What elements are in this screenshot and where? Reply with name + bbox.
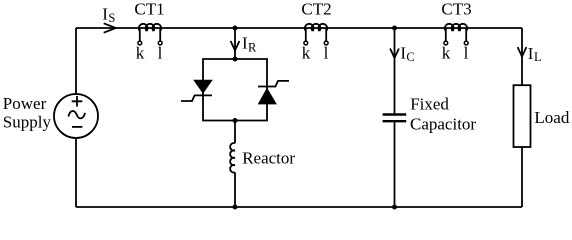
CT1 current transformer [138, 24, 162, 45]
svg-text:l: l [158, 44, 163, 63]
wire thyristor bridge rectangle [203, 59, 267, 121]
thyristor Q1 (left, conducts downward) [181, 80, 213, 101]
svg-text:k: k [302, 44, 311, 63]
node junction top of thyristor bridge [233, 57, 238, 62]
wire right vertical lower [521, 147, 523, 207]
power supply U1 (AC source) [54, 94, 98, 138]
svg-text:CT1: CT1 [134, 0, 164, 19]
wire bottom bus [76, 206, 522, 208]
svg-text:CT3: CT3 [441, 0, 471, 19]
svg-text:Load: Load [534, 108, 569, 127]
inductor reactor coil [230, 143, 235, 173]
svg-text:I: I [528, 44, 534, 63]
node junction capacitor-bottom bus [392, 205, 397, 210]
wire left vertical lower [75, 138, 77, 207]
svg-text:Supply: Supply [3, 113, 52, 132]
wire capacitor branch lower [394, 122, 396, 207]
svg-text:L: L [534, 50, 542, 64]
svg-text:R: R [248, 41, 257, 55]
svg-text:k: k [136, 44, 145, 63]
wire right vertical upper [521, 28, 523, 85]
node junction reactor-bottom bus [233, 205, 238, 210]
wire left vertical upper [75, 28, 77, 94]
wire capacitor branch upper [394, 28, 396, 113]
svg-text:Reactor: Reactor [242, 148, 295, 167]
svg-text:Power: Power [3, 94, 47, 113]
load R1 box [514, 85, 531, 147]
arrow Ic [390, 49, 399, 58]
svg-text:l: l [464, 44, 469, 63]
node junction bottom of thyristor bridge [233, 118, 238, 123]
svg-text:k: k [442, 44, 451, 63]
arrow IL [518, 47, 527, 56]
CT2 current transformer [304, 24, 328, 45]
wire top bus [76, 27, 522, 29]
node junction top of TCR branch [233, 26, 238, 31]
svg-text:CT2: CT2 [301, 0, 331, 19]
arrow Is on top bus [104, 23, 116, 32]
thyristor Q2 (right, conducts upward) [258, 81, 289, 105]
wire reactor branch upper [234, 121, 236, 144]
wire reactor branch lower [234, 172, 236, 207]
svg-text:S: S [108, 11, 115, 25]
svg-text:Fixed: Fixed [410, 95, 449, 114]
arrow Ir [231, 41, 240, 50]
capacitor C1 plates [383, 115, 407, 122]
svg-text:l: l [324, 44, 329, 63]
wire TCR branch drop [234, 28, 236, 59]
svg-text:C: C [406, 50, 414, 64]
node junction top of capacitor branch [392, 26, 397, 31]
CT3 current transformer [444, 24, 468, 45]
svg-text:Capacitor: Capacitor [410, 115, 476, 134]
svg-text:I: I [102, 5, 108, 24]
